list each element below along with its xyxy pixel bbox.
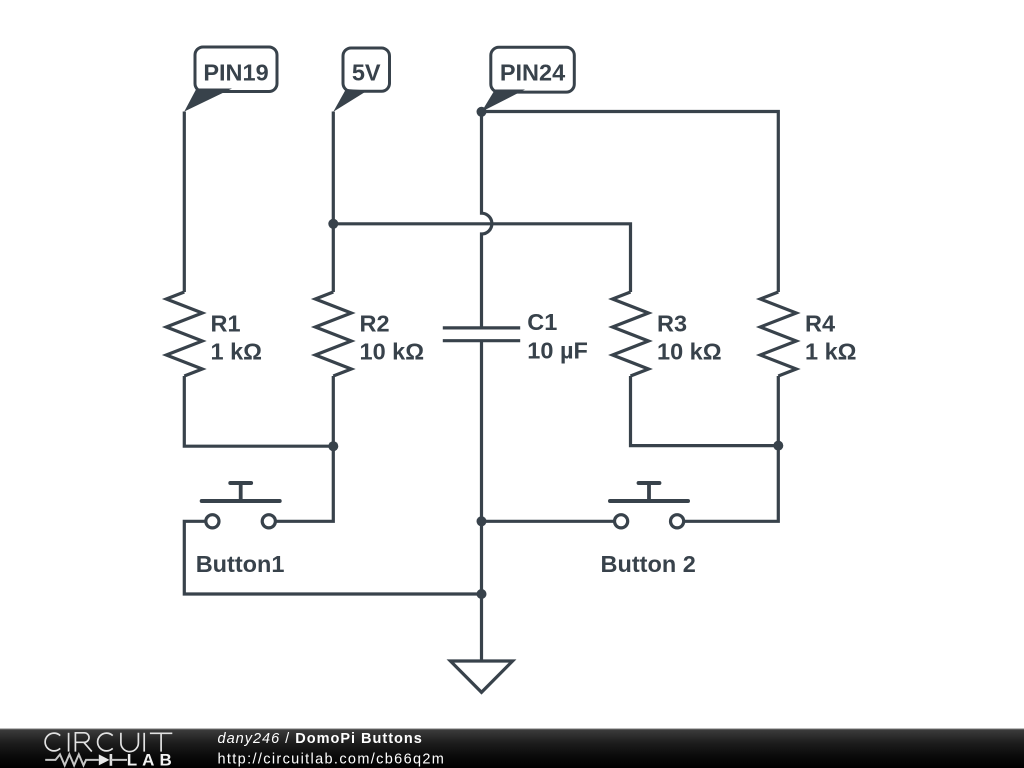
junction node at PIN24 (477, 107, 487, 117)
wire: C1 bottom down to ground (480, 341, 483, 661)
wire: R2 bottom down to Button1 right terminal (275, 376, 333, 521)
flag label PIN24 (482, 47, 575, 112)
svg-text:dany246 / DomoPi Buttons: dany246 / DomoPi Buttons (218, 731, 423, 747)
svg-text:R2: R2 (360, 311, 390, 337)
resistor R4 (760, 292, 796, 376)
svg-text:10 µF: 10 µF (527, 338, 588, 364)
svg-text:C1: C1 (527, 309, 557, 335)
CircuitLab logo squiggle (resistor+diode) (45, 754, 127, 766)
junction node bottom bus (477, 589, 487, 599)
ground (450, 661, 512, 692)
wire: R4 bottom down to Button2 right terminal (684, 376, 779, 521)
wire: 5V bus from R2 rail to R3 (333, 224, 630, 292)
svg-text:R4: R4 (805, 311, 835, 337)
flag label 5V (333, 48, 389, 112)
CircuitLab logo CIRCUIT (drawn letters) (45, 733, 172, 752)
svg-text:PIN19: PIN19 (203, 60, 268, 86)
capacitor C1 (443, 326, 520, 329)
pushbutton Button2 (601, 483, 696, 577)
wire: R3 bottom to R4 rail (631, 376, 779, 446)
junction node Button2/C1 rail (477, 516, 487, 526)
wire: top bus PIN24 to R4 (482, 112, 779, 293)
svg-text:Button 2: Button 2 (601, 551, 696, 577)
resistor R2 (315, 292, 351, 376)
wire: R1 bottom to R2 rail (184, 376, 333, 446)
resistor R1 (166, 292, 202, 376)
junction node R3/R4 (773, 441, 783, 451)
svg-text:PIN24: PIN24 (500, 60, 565, 86)
svg-text:http://circuitlab.com/cb66q2m: http://circuitlab.com/cb66q2m (218, 751, 446, 767)
svg-text:10 kΩ: 10 kΩ (360, 339, 425, 365)
wire: Button1 left terminal to bottom bus (184, 521, 481, 594)
svg-text:LAB: LAB (127, 751, 177, 768)
wire: 5V lead down to R2 (332, 112, 335, 293)
wire: PIN24 node down to C1 top (with hop over 5V bus) (482, 112, 492, 328)
svg-text:10 kΩ: 10 kΩ (657, 339, 722, 365)
svg-text:1 kΩ: 1 kΩ (211, 339, 263, 365)
svg-text:1 kΩ: 1 kΩ (805, 339, 857, 365)
pushbutton Button1 (196, 483, 285, 577)
svg-text:R3: R3 (657, 311, 687, 337)
wire: PIN19 lead down to R1 (183, 112, 186, 293)
svg-text:Button1: Button1 (196, 551, 285, 577)
svg-text:5V: 5V (352, 60, 381, 86)
junction node R1/R2 (328, 441, 338, 451)
flag label PIN19 (184, 47, 277, 112)
svg-text:R1: R1 (211, 311, 241, 337)
wire: Button2 left terminal to C1 rail (482, 520, 615, 523)
resistor R3 (613, 292, 649, 376)
footer bar (0, 729, 1024, 768)
junction node 5V bus (328, 219, 338, 229)
